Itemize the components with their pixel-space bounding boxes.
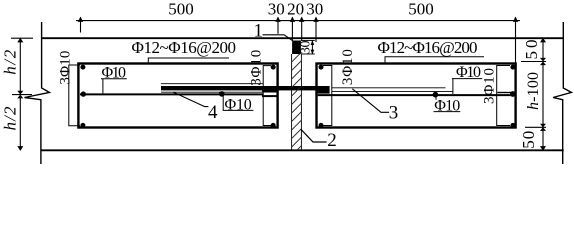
arrow top <box>17 38 23 43</box>
joint filler right edge <box>300 54 302 150</box>
topping top line <box>41 37 563 39</box>
bracket left slab right <box>263 66 271 126</box>
svg-text:20: 20 <box>287 0 304 19</box>
tick <box>513 17 518 22</box>
top dimension line <box>76 20 520 22</box>
bar 4 outline bottom <box>161 91 263 93</box>
arrow top <box>540 38 546 43</box>
mid bar dot <box>219 91 225 97</box>
tick <box>275 17 280 22</box>
leader drop <box>435 96 437 100</box>
mid bar end dot left <box>81 91 86 96</box>
svg-text:Φ12~Φ16@200: Φ12~Φ16@200 <box>132 38 237 57</box>
extension line seal right <box>301 17 303 40</box>
extension line seal left <box>291 17 293 40</box>
extension line joint right <box>315 17 317 42</box>
underline <box>101 78 127 80</box>
svg-text:3Φ10: 3Φ10 <box>249 50 265 86</box>
leader drop <box>222 95 224 110</box>
svg-text:3Φ10: 3Φ10 <box>482 68 498 104</box>
right slab outline <box>317 64 516 128</box>
svg-text:Φ10: Φ10 <box>225 97 252 114</box>
arrow bottom <box>17 146 23 151</box>
tick <box>313 17 318 22</box>
stub 50/h-100 <box>521 61 546 63</box>
arrow up <box>311 40 315 45</box>
bottom line <box>41 149 563 151</box>
svg-text:30: 30 <box>268 0 285 19</box>
joint sealant square <box>292 41 301 55</box>
extension line joint left <box>277 17 279 34</box>
bracket right slab left <box>323 66 332 126</box>
svg-text:4: 4 <box>208 102 218 123</box>
leader 1 <box>263 35 293 41</box>
bar B right anchorage <box>316 90 330 94</box>
left dimension line <box>19 38 21 150</box>
bar A solid joint bar <box>161 86 330 90</box>
joint 30 dim line <box>311 41 313 55</box>
label 2 leader <box>301 129 327 142</box>
bar 3 outline top <box>332 87 446 89</box>
extension line right end <box>515 17 517 62</box>
stub top <box>11 37 33 39</box>
left slab outline <box>78 64 277 128</box>
tick <box>290 17 295 22</box>
leader drop <box>452 79 454 94</box>
svg-text:h/2: h/2 <box>1 106 20 131</box>
svg-text:1: 1 <box>254 20 264 41</box>
svg-text:h/2: h/2 <box>1 49 20 75</box>
label 3 leader <box>352 89 389 113</box>
mid bar end dot right <box>510 91 516 97</box>
mesh bracket left <box>148 58 229 62</box>
svg-text:3Φ10: 3Φ10 <box>340 49 356 85</box>
svg-text:2: 2 <box>327 130 337 151</box>
mid bar dot right slab <box>433 92 439 98</box>
arrow mid2 double <box>540 124 546 128</box>
right slab mid bar line <box>318 94 514 96</box>
label 4 leader <box>174 92 209 106</box>
bar 3 outline bottom <box>332 90 453 92</box>
svg-text:500: 500 <box>408 0 434 19</box>
underline <box>223 109 254 111</box>
arrow mid double <box>17 91 23 95</box>
svg-text:30: 30 <box>299 41 314 55</box>
left slab corner bar dots <box>80 65 85 70</box>
stub mid <box>12 94 32 96</box>
joint filler hatch <box>292 52 302 155</box>
left slab mid bar line <box>80 93 263 95</box>
arrow mid1 double <box>540 58 546 62</box>
ext tick bottom <box>301 53 315 55</box>
left cut line with break <box>25 22 50 164</box>
tick <box>299 17 304 22</box>
svg-text:50: 50 <box>519 131 538 149</box>
svg-text:3: 3 <box>389 103 399 124</box>
svg-text:30: 30 <box>306 0 323 19</box>
right cut line with break <box>553 22 571 164</box>
leader drop <box>102 79 104 94</box>
bar B left anchorage <box>262 90 278 93</box>
svg-text:Φ12~Φ16@200: Φ12~Φ16@200 <box>378 38 478 57</box>
mesh bracket right <box>385 57 484 63</box>
underline <box>452 78 482 80</box>
joint filler left edge <box>291 54 293 150</box>
extension line left end <box>80 17 82 32</box>
arrow bottom <box>540 146 546 151</box>
svg-text:3Φ10: 3Φ10 <box>57 51 73 85</box>
underline <box>434 111 461 113</box>
svg-text:500: 500 <box>168 0 194 19</box>
arrow down <box>311 50 315 55</box>
right dimension line <box>542 38 544 150</box>
bar 4 outline top <box>161 83 263 85</box>
tick <box>78 17 83 22</box>
right slab corner bar dots <box>319 65 324 70</box>
bracket left slab left <box>69 65 80 126</box>
bar B lower stub <box>262 95 278 97</box>
bracket right slab right <box>497 66 510 126</box>
stub h-100/50 <box>525 126 546 128</box>
ext tick top <box>301 40 315 42</box>
svg-text:h-100: h-100 <box>525 72 542 110</box>
companion line right end <box>497 92 511 94</box>
